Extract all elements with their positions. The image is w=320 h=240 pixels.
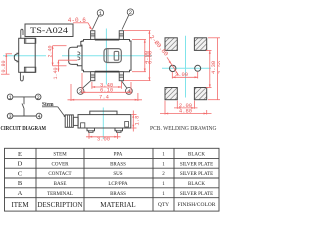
- svg-text:4.80: 4.80: [179, 108, 192, 115]
- pad bottom-right: [194, 88, 206, 100]
- front view body: [78, 115, 131, 128]
- svg-text:1: 1: [162, 162, 165, 167]
- svg-text:DESCRIPTION: DESCRIPTION: [38, 201, 83, 209]
- svg-text:B: B: [18, 180, 23, 187]
- svg-text:TS-A024: TS-A024: [30, 25, 69, 35]
- front view foot left: [87, 128, 95, 132]
- svg-text:7.20: 7.20: [217, 61, 220, 74]
- pin top-left: [91, 31, 95, 40]
- front view stem knob: [65, 115, 73, 127]
- svg-text:COVER: COVER: [52, 162, 70, 167]
- pad bottom-left: [165, 88, 177, 100]
- centerline horizontal: [62, 55, 152, 57]
- cover edge bottom bold: [95, 71, 119, 73]
- svg-text:BLACK: BLACK: [188, 153, 205, 158]
- hole right: [195, 65, 201, 71]
- dim 6.10: [82, 73, 131, 94]
- dim 4.00 right: [132, 40, 146, 72]
- side view stem: [14, 53, 18, 62]
- front view top plate: [90, 111, 117, 115]
- svg-text:A: A: [18, 190, 23, 197]
- svg-text:1: 1: [9, 95, 12, 101]
- svg-text:1: 1: [162, 182, 165, 187]
- svg-text:1: 1: [162, 153, 165, 158]
- svg-text:2.40: 2.40: [47, 45, 53, 57]
- table frame: [5, 148, 220, 211]
- top view stem bumps: [77, 52, 80, 60]
- svg-text:6.10: 6.10: [100, 87, 113, 94]
- dim 1.40: [57, 60, 77, 71]
- pin bottom-left: [91, 72, 95, 81]
- svg-text:3: 3: [9, 114, 12, 120]
- circuit node 4: [36, 113, 42, 119]
- callout 4: [122, 81, 133, 94]
- svg-text:PPA: PPA: [114, 153, 123, 158]
- circuit wire top: [13, 96, 36, 98]
- svg-text:CONTACT: CONTACT: [48, 172, 71, 177]
- callout 3: [77, 81, 90, 94]
- svg-text:2: 2: [162, 172, 165, 177]
- title box: [25, 24, 73, 37]
- front view inner detail left: [81, 123, 85, 128]
- svg-text:TERMINAL: TERMINAL: [47, 192, 73, 197]
- svg-text:4.30: 4.30: [210, 61, 217, 74]
- svg-text:BASE: BASE: [54, 182, 67, 187]
- svg-text:3.00: 3.00: [175, 71, 188, 78]
- callout 1: [92, 10, 103, 30]
- svg-text:CIRCUIT DIAGRAM: CIRCUIT DIAGRAM: [1, 125, 47, 132]
- pcb centerline horizontal: [162, 67, 211, 69]
- circuit wire bottom: [13, 115, 36, 117]
- pad top-right: [194, 38, 206, 51]
- pin top-right: [119, 31, 123, 40]
- pin bottom-right: [119, 72, 123, 81]
- button outer: [104, 49, 121, 63]
- svg-text:E: E: [18, 151, 22, 158]
- front view foot right: [115, 128, 123, 132]
- button flange lines: [106, 49, 108, 63]
- svg-text:C: C: [18, 170, 22, 177]
- svg-text:2: 2: [37, 95, 40, 101]
- circuit node 1: [7, 94, 13, 100]
- svg-text:MATERIAL: MATERIAL: [100, 201, 135, 209]
- svg-text:STEM: STEM: [53, 153, 67, 158]
- svg-text:QTY: QTY: [158, 202, 169, 208]
- dim 4.80 pcb: [160, 101, 212, 115]
- side view top pin hook: [21, 29, 23, 38]
- dim 3.00 front: [86, 133, 121, 139]
- svg-text:1: 1: [162, 192, 165, 197]
- button inner: [114, 51, 119, 60]
- dim 0.80 left: [1, 54, 12, 74]
- dim 3.40: [92, 82, 122, 89]
- dim 6.00 right: [124, 31, 151, 81]
- svg-text:1.8: 1.8: [133, 116, 140, 126]
- svg-text:6.00: 6.00: [147, 51, 154, 64]
- svg-text:SILVER PLATE: SILVER PLATE: [180, 162, 213, 167]
- svg-text:ITEM: ITEM: [11, 201, 29, 209]
- svg-text:LCP/PPA: LCP/PPA: [108, 182, 128, 187]
- dim 4.30: [206, 50, 212, 87]
- dim 2.40: [52, 46, 67, 66]
- svg-text:FINISH/COLOR: FINISH/COLOR: [178, 202, 216, 208]
- circuit node 3: [7, 113, 13, 119]
- dim 3.00 pcb: [172, 72, 197, 79]
- svg-text:BLACK: BLACK: [188, 182, 205, 187]
- side view body: [19, 38, 36, 72]
- svg-text:SILVER PLATE: SILVER PLATE: [180, 192, 213, 197]
- svg-text:SILVER PLATE: SILVER PLATE: [180, 172, 213, 177]
- side view bottom pin hook: [20, 72, 23, 81]
- dim 7.4: [68, 84, 143, 101]
- pad top-left: [165, 38, 177, 51]
- stem leader: [42, 107, 66, 117]
- dim 7.2 clipped: [208, 38, 220, 100]
- cover edge top bold: [95, 39, 119, 41]
- circuit switch: [23, 97, 25, 104]
- circuit node 2: [35, 94, 41, 100]
- table text: [11, 151, 215, 209]
- top view body: [81, 40, 131, 72]
- svg-text:PCB. WELDING DRAWING: PCB. WELDING DRAWING: [150, 126, 217, 132]
- callout 2: [122, 9, 134, 30]
- svg-text:0.80: 0.80: [1, 60, 7, 72]
- pcb centerline vertical: [185, 36, 187, 98]
- svg-text:SUS: SUS: [113, 172, 122, 177]
- top view stem neck: [69, 46, 82, 66]
- svg-text:1.40: 1.40: [53, 67, 59, 79]
- svg-text:D: D: [18, 161, 23, 168]
- svg-text:BRASS: BRASS: [110, 162, 126, 167]
- side view bottom cover rect: [24, 67, 35, 72]
- hole left: [170, 65, 176, 71]
- svg-text:4: 4: [37, 114, 40, 120]
- svg-text:2: 2: [129, 9, 132, 16]
- svg-text:7.4: 7.4: [99, 94, 110, 101]
- dim 1.8 front: [132, 111, 137, 132]
- front view inner detail right: [125, 122, 129, 128]
- centerline: [3, 55, 46, 57]
- svg-text:BRASS: BRASS: [110, 192, 126, 197]
- svg-text:3.00: 3.00: [97, 135, 110, 142]
- centerline vertical front: [102, 108, 104, 140]
- dim 2.00 pcb: [174, 101, 198, 109]
- centerline vertical: [105, 29, 107, 85]
- side view top cover rect: [24, 38, 35, 43]
